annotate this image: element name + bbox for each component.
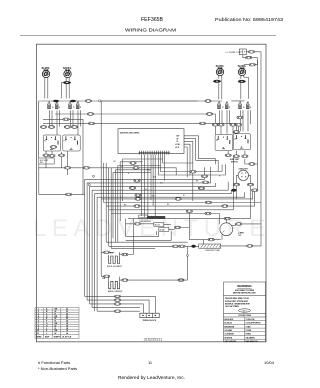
surface switch 3 bbox=[218, 102, 230, 109]
surface unit burner 3 bbox=[216, 68, 223, 76]
wire burner3 leads bbox=[219, 75, 222, 99]
svg-text:UL STYLE: UL STYLE bbox=[62, 336, 72, 338]
wire motor top feed y=218.6 bbox=[128, 218, 251, 220]
wire L1 to right bus bbox=[243, 52, 261, 58]
svg-text:11: 11 bbox=[148, 360, 153, 365]
svg-text:BAKE ELEMENT: BAKE ELEMENT bbox=[108, 290, 123, 293]
junction open node bbox=[99, 100, 101, 102]
svg-text:BK-BLACK: BK-BLACK bbox=[225, 318, 235, 321]
svg-text:R-RED: R-RED bbox=[246, 334, 252, 336]
wire switch3 drops bbox=[220, 110, 230, 134]
wire mesh h y=184.2 bbox=[90, 183, 216, 304]
connector ovals lamp leads bbox=[233, 183, 239, 186]
svg-text:AMP: AMP bbox=[45, 335, 50, 338]
drawing frame bbox=[36, 44, 266, 342]
table outer bbox=[35, 308, 79, 339]
wire bake right lead bbox=[119, 279, 187, 281]
connector oval below burner2 bbox=[63, 81, 71, 84]
EOC right pin stub wires (nested, top row furthest right) bbox=[184, 136, 198, 177]
wire lower-left verticals to latch bar bbox=[106, 206, 199, 248]
svg-text:W-456: W-456 bbox=[160, 229, 165, 231]
connector oval below burner4 bbox=[238, 80, 246, 83]
wire bus down to bar bbox=[203, 240, 261, 246]
connector ovals in mesh bbox=[64, 167, 70, 170]
svg-text:L2 W: L2 W bbox=[175, 147, 179, 149]
svg-text:L1 BK: L1 BK bbox=[175, 144, 181, 146]
svg-text:SU/FL: SU/FL bbox=[216, 64, 225, 68]
svg-text:BK-123: BK-123 bbox=[155, 224, 160, 226]
svg-text:YELLOW STRIPE.: YELLOW STRIPE. bbox=[225, 306, 240, 308]
wire lamp side leads bbox=[237, 175, 251, 218]
color code table bbox=[224, 317, 266, 342]
connector splice on bus (solid) bbox=[70, 100, 76, 103]
wire mesh h y=165.5 with corner bbox=[118, 166, 161, 243]
bake element bbox=[109, 281, 120, 289]
connector oval below switch4 bbox=[237, 116, 243, 119]
wire mesh h y=177.2 from bundle bbox=[85, 167, 205, 296]
svg-text:T: T bbox=[115, 212, 116, 214]
svg-text:GN/Y-GRN/YEL: GN/Y-GRN/YEL bbox=[225, 341, 237, 343]
svg-text:BK: BK bbox=[196, 181, 199, 183]
svg-text:BK•: BK• bbox=[177, 136, 180, 138]
wire switch2 drops bbox=[71, 110, 81, 135]
wire mesh h y=188 bbox=[92, 182, 228, 308]
svg-text:* Non-Illustrated Parts: * Non-Illustrated Parts bbox=[38, 366, 77, 371]
svg-text:HOT SURF: HOT SURF bbox=[40, 160, 48, 162]
junction open node on latch vertical bbox=[187, 254, 189, 256]
svg-text:IND.: IND. bbox=[40, 162, 44, 164]
wire top horizontal bus y=101 bbox=[39, 100, 198, 102]
connector oval on bake link bbox=[178, 279, 184, 282]
connector ovals below indicator boxes bbox=[43, 154, 49, 157]
wire burner2 right lead to oval bbox=[68, 77, 70, 98]
warning paragraph bbox=[225, 297, 251, 308]
connector oval bake right bbox=[122, 279, 128, 282]
svg-text:SWITCH: SWITCH bbox=[231, 161, 238, 163]
svg-text:TEMP°C: TEMP°C bbox=[54, 336, 62, 338]
hot surface indicator label box bbox=[39, 158, 54, 164]
svg-text:W•: W• bbox=[177, 138, 180, 140]
wire broil feed bbox=[101, 252, 119, 256]
svg-text:316255311: 316255311 bbox=[144, 337, 163, 341]
svg-text:NOTED FIRST, STRIPE NEXT.: NOTED FIRST, STRIPE NEXT. bbox=[225, 301, 249, 303]
svg-text:MAR-MAROON: MAR-MAROON bbox=[246, 340, 259, 343]
connector ovals in mesh column x~135 bbox=[130, 162, 136, 165]
wire lower h y=236.3 bbox=[126, 219, 159, 237]
connector oval bake feed bbox=[104, 275, 110, 278]
svg-text:BR-BROWN: BR-BROWN bbox=[225, 326, 235, 328]
wire switch1 drops to indicator row bbox=[50, 110, 60, 135]
wire mid bus y=119.3 bbox=[43, 119, 233, 194]
wire mesh h y=209.8 bbox=[109, 157, 234, 209]
header rule bbox=[20, 35, 276, 37]
connector oval motor right bbox=[236, 223, 242, 226]
wire mesh h y=180.7 bbox=[87, 167, 210, 300]
wire mesh h y=175 bbox=[158, 163, 225, 175]
svg-text:Y-YELLOW: Y-YELLOW bbox=[246, 319, 255, 321]
wire oval64 link bbox=[244, 61, 258, 65]
wire mesh h y=172.6 with corner bbox=[113, 173, 151, 239]
svg-text:LEADVENTURE: LEADVENTURE bbox=[33, 215, 271, 242]
surface unit burner 1 bbox=[42, 70, 49, 78]
svg-text:ELECTRONIC OVEN CONTROL: ELECTRONIC OVEN CONTROL bbox=[120, 133, 140, 135]
wire EOC pin drop 3 bbox=[147, 155, 149, 218]
connector oval broil feed bbox=[104, 251, 110, 254]
junction node small bbox=[93, 175, 95, 177]
connector ovals on terminal feeds bbox=[114, 295, 120, 298]
svg-text:OVEN SENSOR: OVEN SENSOR bbox=[139, 221, 152, 223]
warning outer box bbox=[224, 282, 266, 342]
connector oval on bus corner bbox=[247, 245, 253, 248]
wire label oval link bbox=[245, 159, 258, 164]
connector ovals row y=124.7 bbox=[212, 123, 218, 126]
right indicator box 1 bbox=[215, 135, 232, 151]
color code entries bbox=[225, 318, 262, 343]
svg-text:R-6: R-6 bbox=[160, 182, 163, 184]
wire ovals to right indicator boxes bbox=[215, 126, 238, 135]
table row lines bbox=[35, 309, 79, 311]
svg-text:BL-BLUE: BL-BLUE bbox=[225, 323, 233, 325]
svg-text:SU/FL: SU/FL bbox=[63, 66, 72, 70]
surface switch 2 bbox=[69, 102, 81, 109]
wire feeds to terminal block bbox=[85, 296, 156, 313]
svg-text:L: L bbox=[46, 333, 48, 335]
wire mid bus y=123.4 bbox=[43, 123, 236, 130]
wire mid bus y=114 bbox=[55, 114, 215, 124]
EOC box bbox=[118, 129, 184, 154]
svg-text:GN-Y: GN-Y bbox=[242, 310, 247, 312]
svg-text:COLOR CODE: COLOR CODE bbox=[238, 315, 252, 317]
connector splice on bus (solid) bbox=[53, 100, 59, 103]
wire broil right lead bbox=[119, 219, 133, 255]
svg-text:EXAMPLE: GREEN WIRE WITH: EXAMPLE: GREEN WIRE WITH bbox=[225, 303, 251, 306]
right bus vertical x=261 bbox=[260, 52, 262, 243]
right bus vertical x=257.5 bbox=[257, 58, 259, 191]
wire mesh h y=213.5 bbox=[111, 168, 219, 224]
svg-text:R-8: R-8 bbox=[102, 278, 105, 280]
svg-text:R•: R• bbox=[177, 141, 179, 143]
wire bake feed bbox=[101, 276, 119, 281]
wire EOC pin drop 2 bbox=[144, 155, 146, 217]
wire mesh h y=198.9 bbox=[101, 101, 253, 276]
wire indicator drop to lower bus bbox=[39, 151, 68, 194]
svg-text:GN-GREEN: GN-GREEN bbox=[246, 337, 256, 339]
wire switch4 drops bbox=[241, 110, 251, 131]
svg-text:WARNING: WARNING bbox=[237, 284, 252, 288]
warning subtitle bbox=[233, 290, 256, 295]
svg-text:SU/FL: SU/FL bbox=[42, 66, 51, 70]
connector ovals below right boxes bbox=[225, 154, 231, 157]
warning inner rules bbox=[224, 295, 266, 297]
svg-text:W: W bbox=[55, 333, 57, 335]
svg-text:GY-GRAY: GY-GRAY bbox=[225, 329, 234, 332]
svg-text:W: W bbox=[183, 195, 185, 197]
connector oval on bus y=123.4 end bbox=[199, 122, 205, 125]
svg-text:11: 11 bbox=[37, 333, 39, 335]
connector oval row above indicator boxes bbox=[40, 126, 46, 129]
svg-text:O-ORANGE: O-ORANGE bbox=[225, 333, 235, 336]
connector oval L1 bbox=[248, 51, 254, 54]
wire motor oval to bus bbox=[242, 223, 261, 225]
wire EOC pin drop 1 bbox=[141, 155, 143, 216]
right indicator box 2 bbox=[233, 134, 250, 150]
wire motor bottom y=239.6 bbox=[189, 211, 221, 240]
wire mesh h y=160.3 bbox=[196, 160, 219, 171]
wire left frame drop x=38.7 bbox=[38, 101, 40, 158]
oven lamp bbox=[238, 170, 248, 180]
connector ovals on latch wire bbox=[172, 245, 178, 248]
connector oval on box2 top bbox=[233, 131, 239, 134]
svg-text:BK: BK bbox=[114, 161, 117, 163]
wire bus continues to right switches bbox=[101, 100, 245, 102]
wire mesh h y=191.6 bbox=[95, 190, 232, 311]
connector oval right of burner4 bbox=[249, 63, 255, 66]
wire burner1 leads down bbox=[45, 77, 48, 98]
svg-text:TERML BLOCK: TERML BLOCK bbox=[143, 320, 157, 322]
wire relay links bbox=[126, 218, 190, 236]
svg-text:Rendered by LeadVenture, Inc.: Rendered by LeadVenture, Inc. bbox=[118, 375, 185, 380]
svg-text:10/04: 10/04 bbox=[264, 360, 275, 365]
hot surface indicator box right bbox=[63, 135, 80, 151]
svg-text:BROIL ELEMENT: BROIL ELEMENT bbox=[107, 266, 123, 268]
surface switch 1 bbox=[48, 102, 60, 109]
wire mesh h y=206.1 long bbox=[106, 163, 255, 206]
wire mesh h y=195.3 bbox=[97, 192, 245, 311]
wire lower h y=240.3 bbox=[126, 231, 172, 240]
wire burner4 leads bbox=[241, 75, 249, 99]
connector oval on bus bbox=[85, 100, 91, 103]
svg-text:T-TAN: T-TAN bbox=[246, 325, 252, 328]
svg-text:R: R bbox=[128, 173, 130, 175]
relay box 1 bbox=[154, 223, 164, 227]
svg-text:OVEN VENT TUBE: OVEN VENT TUBE bbox=[205, 250, 221, 252]
relay box 2 bbox=[159, 228, 169, 232]
svg-text:R: R bbox=[219, 175, 221, 177]
wire oval branch down bbox=[62, 82, 63, 98]
wire mesh h y=169.8 with corner bbox=[115, 170, 150, 242]
svg-text:V-VIOLET/PURPLE: V-VIOLET/PURPLE bbox=[246, 323, 262, 325]
sensor probe bar bbox=[148, 216, 166, 219]
wire mesh h y=171.5 bbox=[161, 162, 223, 172]
junction node small 2 bbox=[88, 184, 90, 186]
connector oval right of relays bbox=[174, 226, 180, 229]
table column lines bbox=[43, 308, 45, 339]
wire mesh h y=167.8 long left bbox=[39, 168, 176, 175]
surface unit burner 4 bbox=[238, 68, 245, 76]
broil element bbox=[109, 256, 120, 264]
svg-text:FEF365B: FEF365B bbox=[141, 17, 164, 23]
motor circle bbox=[220, 223, 233, 236]
surface switch 4 bbox=[239, 102, 251, 109]
wire EOC drops to mesh verticals bbox=[151, 155, 155, 217]
warning part oval bbox=[239, 309, 251, 312]
connector oval right of label bbox=[249, 163, 255, 166]
svg-text:TRACER WIRE: WIRE COLOR: TRACER WIRE: WIRE COLOR bbox=[225, 297, 250, 300]
svg-text:BEFORE SERVICING UNIT.: BEFORE SERVICING UNIT. bbox=[233, 293, 256, 295]
hatched heater bar bbox=[199, 244, 221, 248]
surface unit burner 2 bbox=[64, 70, 71, 78]
connector oval between indicator boxes bbox=[50, 146, 56, 149]
table tiny cell text bbox=[37, 308, 72, 339]
svg-text:R-6: R-6 bbox=[110, 253, 113, 255]
connector oval sensor left bbox=[134, 223, 140, 226]
wire motor to oval bbox=[232, 224, 236, 226]
solid splice on latch wire bbox=[191, 245, 195, 248]
wire gauge labels sprinkled bbox=[114, 161, 222, 214]
svg-text:WIRING DIAGRAM: WIRING DIAGRAM bbox=[125, 28, 176, 34]
svg-text:W-WHITE: W-WHITE bbox=[225, 337, 233, 339]
EOC comb base line bbox=[139, 152, 170, 154]
wire box to oval bbox=[246, 51, 248, 53]
connector oval on bus y=114 end bbox=[206, 113, 212, 116]
connector ovals on left busses bbox=[87, 113, 93, 116]
wire right box bottom stubs bbox=[228, 151, 245, 155]
terminal block box bbox=[140, 313, 159, 317]
wire mesh h y=163 bbox=[123, 159, 193, 201]
wire latch vertical to bake link bbox=[187, 246, 189, 280]
wire mesh h y=158.7 bbox=[198, 159, 215, 165]
svg-text:# Functional Parts: # Functional Parts bbox=[38, 360, 70, 365]
hot surface indicator box left bbox=[43, 135, 60, 151]
svg-text:W-8: W-8 bbox=[153, 177, 156, 179]
svg-text:WIRE: WIRE bbox=[37, 336, 43, 338]
wire burner2 left lead bbox=[65, 77, 67, 98]
power connector box bbox=[239, 49, 246, 55]
wire motor top/bottom taps bbox=[222, 219, 226, 240]
wire mesh h y=161.8 with corner bbox=[120, 162, 142, 221]
connector oval broil right bbox=[122, 253, 128, 256]
EOC bottom pin comb bbox=[140, 151, 169, 155]
connector oval on bus right bbox=[205, 100, 211, 103]
sensor box bbox=[139, 215, 148, 219]
wire mesh left link y=194.4 bbox=[39, 193, 85, 195]
svg-text:P-PINK: P-PINK bbox=[246, 330, 253, 332]
wire EOC pin drop group right bbox=[158, 155, 164, 181]
svg-text:BK-8: BK-8 bbox=[147, 170, 151, 172]
svg-text:Publication No: 5995419743: Publication No: 5995419743 bbox=[215, 17, 284, 22]
wire mesh h y=202.5 long bbox=[104, 163, 261, 203]
svg-text:BK: BK bbox=[167, 204, 170, 206]
connector oval N bbox=[246, 56, 252, 59]
wire N to bus bbox=[252, 57, 258, 59]
